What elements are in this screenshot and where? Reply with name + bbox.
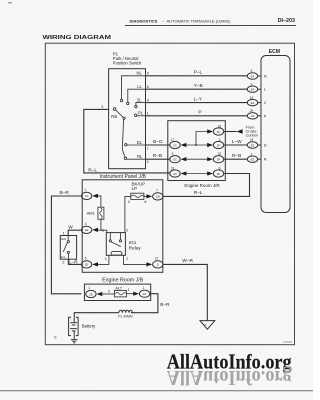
wire relay pin3 to BK/UP fuse bbox=[125, 196, 131, 232]
engine room J/B (middle) bbox=[168, 121, 226, 188]
engine room J/B (bottom) bbox=[84, 277, 150, 300]
wire R-B (switch RL to 3C-9) bbox=[146, 158, 171, 160]
watermark AllAutoInfo.org bbox=[167, 351, 292, 388]
wire AM1 fuse to relay junction bbox=[100, 219, 102, 230]
fuse AM1 bbox=[87, 207, 104, 219]
connector E4 pin 5 (N) bbox=[247, 69, 266, 79]
connector C4 pin 20 (P) bbox=[247, 109, 266, 119]
instrument panel J/B bbox=[81, 174, 163, 272]
connector 2F pin 22 bbox=[207, 152, 224, 163]
wire Y-B (switch LL to ECM L) bbox=[146, 88, 248, 90]
PL contact lead bbox=[137, 115, 146, 117]
fuse ALT bbox=[102, 285, 133, 297]
DL contact lead bbox=[127, 144, 146, 146]
ECM bbox=[247, 49, 290, 212]
wire FL MAIN to battery top bbox=[74, 313, 119, 318]
connector 2E pin 1 bbox=[86, 286, 103, 297]
connector 2A pin 1 bbox=[133, 286, 150, 297]
lower movable arm bbox=[122, 149, 125, 157]
connector E3 pin 2 (R) bbox=[247, 152, 266, 162]
wire R-L (switch pin 3 down to 2C-19) bbox=[84, 109, 170, 172]
battery bbox=[69, 317, 97, 343]
internal wire node bbox=[187, 132, 209, 174]
wire junction row to 1E-4 bbox=[98, 229, 101, 231]
connector E4 pin 9 (L) bbox=[247, 82, 266, 92]
connector 2C pin 17 bbox=[170, 138, 187, 149]
fuse BK/UP LP bbox=[128, 181, 147, 204]
wire 2A to FL MAIN to battery bbox=[131, 294, 158, 313]
wire P-L (switch NL to ECM N) bbox=[146, 75, 248, 77]
box bbox=[168, 121, 226, 181]
wire junction to relay pin6 bbox=[101, 230, 107, 232]
ECM body bbox=[261, 56, 290, 213]
wire 1A to AM1 fuse bbox=[98, 196, 101, 207]
fusible link FL MAIN bbox=[118, 310, 132, 318]
connector 2C pin 19 bbox=[170, 167, 187, 178]
header rule bbox=[125, 25, 296, 27]
connector 2F pin 3 bbox=[207, 138, 224, 149]
RL contact lead bbox=[127, 158, 146, 160]
wire L-Y (switch 2L to ECM 2) bbox=[146, 102, 248, 104]
wire BK/UP fuse to 1B bbox=[144, 195, 147, 197]
mechanical link bbox=[122, 120, 123, 150]
wire from cruise control to 3C-18 bbox=[224, 131, 237, 133]
internal wiring bbox=[98, 196, 146, 265]
connector E3 pin 24 (D) bbox=[247, 138, 266, 148]
wire R-B (2F-22 to ECM R) bbox=[224, 158, 248, 160]
RB movable contact bbox=[113, 108, 116, 111]
connector 3C pin 9 bbox=[170, 152, 187, 163]
2L contact lead bbox=[136, 103, 146, 106]
wire R-L (2F-6 to 1B) bbox=[163, 174, 249, 197]
wire L-W (2F-3 to ECM D) bbox=[224, 144, 248, 146]
diagram frame bbox=[45, 43, 294, 345]
wire L-R (ignition sw pin2 to 1E) bbox=[68, 259, 81, 264]
box bbox=[82, 180, 163, 272]
connector 1I pin 12 bbox=[146, 256, 163, 268]
P1 park/neutral position switch bbox=[101, 52, 149, 169]
ignition switch bbox=[60, 232, 76, 265]
battery ground bbox=[71, 336, 78, 343]
NL contact lead bbox=[122, 76, 146, 100]
connector 1B pin 7 bbox=[146, 188, 163, 200]
bottom rule bbox=[0, 390, 313, 392]
relay IG1 bbox=[102, 229, 142, 261]
connector 1E pin 4 bbox=[81, 222, 98, 234]
connector 1A pin 1 bbox=[81, 188, 98, 200]
from cruise control arrow bbox=[237, 126, 258, 138]
header small text bbox=[130, 19, 232, 24]
wire B-O (switch DL to 2C-17) bbox=[146, 144, 171, 146]
ground triangle bbox=[200, 321, 215, 330]
LL contact lead bbox=[128, 89, 146, 102]
wire relay pin1 to 1E-5 bbox=[98, 255, 109, 264]
wire B-R (riser from 2E to 1A) bbox=[51, 196, 81, 294]
connector 3C pin 18 bbox=[207, 125, 224, 136]
connector E4 pin 19 (2) bbox=[247, 96, 266, 106]
connector 1E pin 5 bbox=[81, 256, 98, 268]
wire relay pin2 to 1I bbox=[124, 255, 147, 264]
wire P (switch PL to ECM P) bbox=[146, 115, 248, 117]
connector 2F pin 6 bbox=[207, 167, 224, 178]
top-left scan artifact bbox=[8, 2, 12, 3]
wire W (ignition sw pin1 to 1E) bbox=[68, 230, 81, 235]
switch body box bbox=[109, 69, 146, 169]
wire W-R (1I to ground) bbox=[163, 264, 207, 320]
